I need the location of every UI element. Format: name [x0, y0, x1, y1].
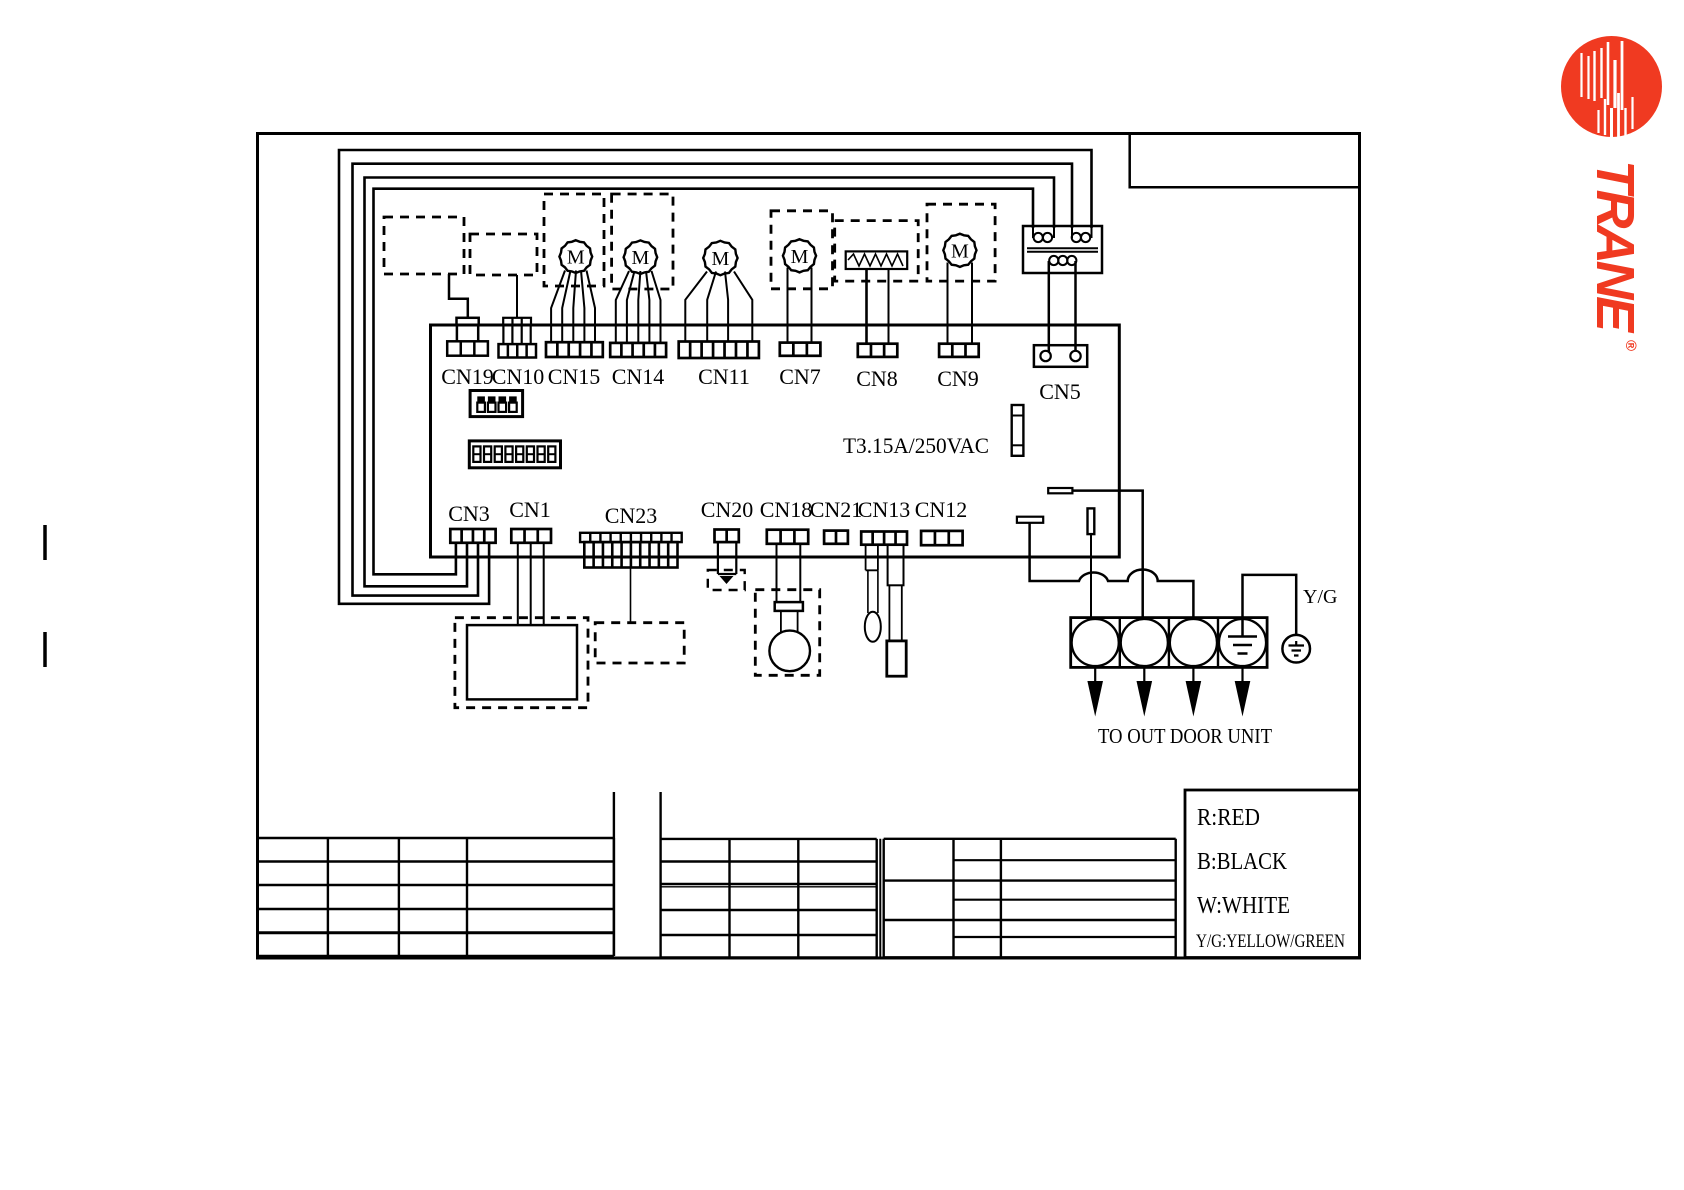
- connector CN21: [824, 531, 848, 544]
- connector CN1: [511, 529, 551, 543]
- connector CN18: [767, 530, 808, 544]
- wires motor to CN9: [947, 263, 949, 344]
- svg-text:TRANE: TRANE: [1585, 160, 1645, 334]
- jumper arrow below CN20: [720, 576, 734, 584]
- dashed box for CN7 motor: [771, 211, 833, 289]
- wire CN3 pin3 to transformer: [353, 164, 1073, 596]
- dashed box around display unit: [455, 618, 588, 708]
- plug above CN19: [457, 318, 479, 325]
- svg-text:M: M: [791, 246, 809, 268]
- transformer T1: [1023, 226, 1102, 273]
- svg-text:CN13: CN13: [858, 497, 911, 522]
- connector CN10: [499, 344, 537, 357]
- svg-text:Y/G:YELLOW/GREEN: Y/G:YELLOW/GREEN: [1196, 931, 1345, 952]
- dashed box for CN14 fan motor: [612, 194, 673, 289]
- terminal block TB1: [1071, 618, 1267, 668]
- legend box: [1185, 790, 1360, 958]
- jumper bar J2 on PCB: [1017, 517, 1043, 523]
- sensor bulb (CN18): [769, 631, 810, 672]
- svg-text:CN10: CN10: [492, 364, 545, 389]
- connector CN8: [858, 344, 898, 357]
- svg-text:CN14: CN14: [612, 364, 665, 389]
- svg-text:M: M: [632, 247, 650, 269]
- connector CN12: [921, 531, 963, 545]
- svg-text:T3.15A/250VAC: T3.15A/250VAC: [843, 433, 989, 458]
- wires motor to CN15: [551, 271, 565, 343]
- registration mark left upper: [43, 525, 47, 560]
- svg-text:CN3: CN3: [448, 501, 490, 526]
- svg-text:M: M: [712, 248, 730, 270]
- DIP switch SW1 (4 position): [470, 391, 522, 417]
- dashed box below CN23: [595, 623, 684, 663]
- svg-text:CN7: CN7: [779, 364, 821, 389]
- motor M (CN7): [783, 239, 816, 272]
- dashed box for CN9 motor: [927, 204, 995, 281]
- svg-text:R:RED: R:RED: [1197, 805, 1260, 831]
- external protective earth circle: [1282, 635, 1310, 663]
- title strip top right: [1130, 135, 1358, 188]
- motor M (CN9): [943, 234, 976, 267]
- drawing frame border: [258, 134, 1360, 959]
- svg-text:CN19: CN19: [441, 364, 494, 389]
- wire transformer secondary to CN5 pin1: [1048, 261, 1051, 352]
- dashed box (room sensor) for CN19: [384, 217, 464, 274]
- component V1 on PCB (varistor): [1088, 508, 1095, 534]
- DIP switch SW2 (8 position): [469, 441, 560, 468]
- ground symbol in terminal 4: [1228, 637, 1257, 654]
- svg-text:CN1: CN1: [509, 497, 551, 522]
- table right: [884, 839, 1176, 958]
- svg-text:CN20: CN20: [701, 497, 754, 522]
- wire plug pins into CN19: [456, 325, 459, 341]
- svg-text:®: ®: [1622, 340, 1639, 351]
- svg-text:B:BLACK: B:BLACK: [1197, 849, 1288, 875]
- dashed box around CN18 sensor: [755, 590, 819, 676]
- connector CN9: [939, 344, 979, 357]
- wire terminal 4 to external earth: [1243, 575, 1297, 637]
- arrow to outdoor unit 1: [1094, 667, 1096, 683]
- table right double separator: [879, 839, 881, 958]
- motor M (CN11): [703, 241, 737, 275]
- wires heater to CN8: [865, 269, 868, 344]
- connector CN19: [447, 341, 488, 355]
- dashed box for CN15 fan motor: [544, 194, 604, 286]
- table middle: [661, 839, 877, 958]
- arrow to outdoor unit 3: [1192, 667, 1194, 683]
- dashed box for CN8 heater: [835, 221, 919, 282]
- wire V1 to terminal 1: [1090, 534, 1092, 618]
- wires motor to CN7: [787, 268, 789, 343]
- wire CN3 pin1 to transformer (innermost loop): [374, 189, 1034, 575]
- svg-text:TO OUT DOOR UNIT: TO OUT DOOR UNIT: [1098, 724, 1272, 748]
- svg-text:CN11: CN11: [698, 364, 750, 389]
- connector CN7: [780, 343, 821, 356]
- fuse F1: [1012, 405, 1024, 456]
- connector CN23 main row: [584, 542, 677, 567]
- connector CN20: [715, 530, 739, 543]
- wire CN3 pin2 to transformer: [365, 178, 1055, 587]
- wires motor to CN11: [685, 272, 707, 342]
- svg-text:CN9: CN9: [937, 366, 979, 391]
- Trane logo circle: [1561, 36, 1662, 138]
- thermistor probe 1 (CN13): [866, 545, 878, 571]
- arrow to outdoor unit 4: [1241, 667, 1243, 683]
- svg-text:W:WHITE: W:WHITE: [1197, 893, 1290, 919]
- arrow to outdoor unit 2: [1143, 667, 1145, 683]
- wire J1 to terminal 2: [1072, 491, 1142, 618]
- connector CN23 top row: [580, 533, 682, 542]
- wires CN18 to sensor: [776, 544, 778, 602]
- table separator verticals: [613, 792, 615, 956]
- wire dashed box to CN10: [516, 275, 518, 318]
- svg-text:M: M: [567, 247, 585, 269]
- wire plug pins into CN10: [502, 325, 504, 344]
- earth terminal circle (terminal 4): [1219, 619, 1266, 666]
- svg-text:CN21: CN21: [810, 497, 863, 522]
- connector CN15: [546, 342, 603, 357]
- connector CN3: [450, 529, 495, 543]
- svg-text:CN12: CN12: [915, 497, 968, 522]
- plug above CN10: [503, 318, 531, 325]
- plug below CN20: [718, 542, 736, 574]
- svg-text:CN5: CN5: [1039, 379, 1081, 404]
- connector CN5: [1034, 345, 1087, 367]
- display unit box: [467, 625, 577, 699]
- PCB main control board outline: [431, 325, 1120, 557]
- wire dashed box to CN19: [449, 274, 468, 318]
- wires motor to CN14: [616, 271, 629, 343]
- table left: [258, 838, 614, 956]
- registration mark left lower: [43, 632, 47, 667]
- heater element (CN8): [846, 251, 908, 269]
- svg-text:M: M: [951, 240, 969, 262]
- wire transformer secondary to CN5 pin2: [1074, 261, 1077, 352]
- svg-text:CN18: CN18: [760, 497, 813, 522]
- sensor collar (CN18): [775, 602, 803, 611]
- jumper bar J1 on PCB: [1048, 488, 1072, 493]
- connector CN14: [610, 343, 666, 357]
- connector CN13: [861, 532, 907, 545]
- svg-text:CN15: CN15: [548, 364, 601, 389]
- dashed box around CN20 jumper: [708, 570, 745, 590]
- svg-text:CN8: CN8: [856, 366, 898, 391]
- svg-text:Y/G: Y/G: [1303, 586, 1337, 608]
- pipe sensor probe 2 (CN13): [888, 545, 904, 586]
- Trane logo wordmark TRANE: [1585, 160, 1645, 351]
- dashed box (sensor) for CN10: [470, 234, 537, 275]
- ground symbol in external earth: [1289, 641, 1305, 656]
- connector CN11: [679, 342, 759, 359]
- wire CN3 pin4 to transformer (outermost loop): [339, 150, 1092, 604]
- motor M (CN15): [559, 240, 592, 273]
- motor M (CN14): [624, 240, 658, 274]
- wires CN1 to display unit: [517, 543, 519, 625]
- wire CN23 to dashed box: [630, 568, 632, 623]
- svg-text:CN23: CN23: [605, 503, 658, 528]
- wire J2 to terminal 3 with crossover humps: [1030, 523, 1194, 618]
